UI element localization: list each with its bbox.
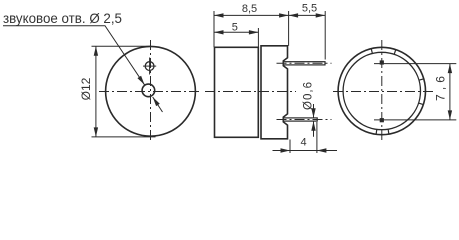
mounting hole <box>143 58 156 75</box>
svg-text:звуковое отв. Ø 2,5: звуковое отв. Ø 2,5 <box>3 10 122 26</box>
pin 1 centerline <box>277 62 332 64</box>
pin 2 centerline <box>277 119 332 121</box>
pin 2 rear view <box>380 118 384 122</box>
dimension 5 <box>214 21 258 46</box>
rear view horizontal centerline <box>333 91 434 93</box>
dimension 7.6 <box>374 64 456 120</box>
dimension pin dia 0.6 <box>303 82 316 137</box>
svg-text:8,5: 8,5 <box>242 3 257 15</box>
svg-text:5,5: 5,5 <box>302 3 317 15</box>
svg-text:5: 5 <box>232 21 238 33</box>
side view cap with pin notches <box>261 46 288 139</box>
svg-text:Ø12: Ø12 <box>79 77 93 100</box>
rear view vertical centerline <box>381 40 383 143</box>
svg-text:Ø0,6: Ø0,6 <box>303 82 315 110</box>
front view vertical centerline <box>150 40 152 143</box>
side view cup <box>215 47 259 137</box>
svg-text:7,6: 7,6 <box>434 76 448 101</box>
front view horizontal centerline <box>99 91 202 93</box>
dimension D12 <box>79 46 156 137</box>
pin 1 rear view <box>380 60 384 64</box>
rim notches <box>371 49 424 135</box>
front view body circle <box>106 46 196 136</box>
rear view outer circle <box>338 47 425 134</box>
dimension 4 <box>273 122 338 153</box>
pin 2 side view <box>283 118 317 121</box>
dimension 5.5 <box>289 3 326 60</box>
rear view inner circle <box>343 52 420 129</box>
side view horizontal centerline <box>205 91 296 93</box>
sound hole <box>142 84 155 97</box>
svg-text:4: 4 <box>300 137 306 149</box>
pin 1 side view <box>283 62 325 65</box>
leader line sound hole <box>3 26 163 112</box>
dimension 8.5 <box>214 3 289 47</box>
